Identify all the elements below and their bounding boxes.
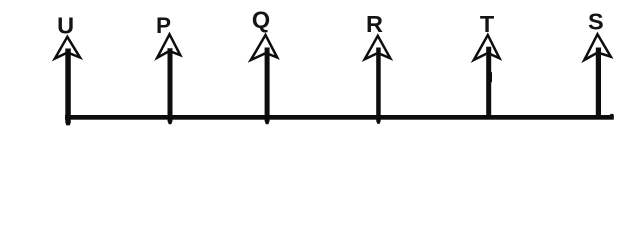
baseline wire: [65, 114, 614, 120]
svg-text:Q: Q: [252, 6, 270, 32]
svg-text:U: U: [57, 12, 74, 38]
svg-text:S: S: [588, 8, 604, 34]
svg-text:R: R: [366, 11, 383, 37]
arrow R: [365, 36, 391, 124]
arrow S: [584, 34, 611, 119]
arrow U: [55, 37, 80, 126]
arrow T: [474, 35, 500, 120]
arrow P: [157, 34, 180, 124]
arrow Q: [251, 35, 277, 124]
